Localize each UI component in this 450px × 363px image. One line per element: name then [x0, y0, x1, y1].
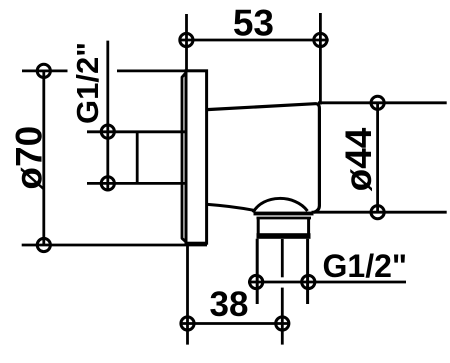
spout collar bottom band: [257, 233, 311, 239]
dimension G1/2 inlet: vertical dimension line: [106, 41, 109, 190]
svg-text:G1/2": G1/2": [323, 248, 408, 284]
dimension phi44: bottom extension line: [312, 211, 447, 214]
outlet pipe left edge: [256, 239, 259, 304]
dimension 38: dimension line: [183, 322, 288, 325]
dimension phi44: top extension line: [318, 101, 447, 104]
dot: G1/2 outlet left endpoint: [250, 275, 263, 288]
dimension 53: right extension line: [319, 13, 322, 105]
dimension phi70: vertical dimension line: [42, 71, 45, 245]
outlet pipe right edge: [306, 239, 309, 304]
flange front cover plate: [182, 73, 186, 242]
inlet pipe: bottom edge: [87, 182, 186, 185]
inlet pipe: top edge: [87, 130, 186, 133]
dot: G1/2 outlet right endpoint: [302, 275, 315, 288]
spout rim bar: [254, 212, 314, 216]
spout under-rim line: [257, 217, 312, 220]
dimension phi70: top extension line (left of text): [22, 70, 68, 73]
dimension 38: left extension line: [186, 244, 189, 345]
spout collar right edge: [307, 218, 310, 234]
dot: 38 left endpoint: [181, 317, 194, 330]
dot: 38 right endpoint: [276, 317, 289, 330]
spout dome cap: [253, 198, 308, 212]
svg-text:53: 53: [233, 2, 274, 43]
body top outline (cone to rim): [207, 104, 319, 213]
dimension phi70: bottom extension line: [22, 244, 207, 247]
dot: phi70 bottom endpoint: [37, 238, 50, 251]
dimension 38: right extension line upper segment: [281, 239, 284, 277]
dimension 38: right extension line lower segment: [281, 288, 284, 345]
dot: phi44 top endpoint: [371, 96, 384, 109]
dimension phi70: top extension line (right of text): [117, 70, 186, 73]
svg-text:ø70: ø70: [9, 126, 50, 190]
inlet pipe: thread step line: [136, 132, 139, 184]
dot: phi70 top endpoint: [37, 64, 50, 77]
flange body (side view): [186, 71, 207, 243]
dimension G1/2 outlet: dimension line: [248, 281, 406, 284]
svg-text:38: 38: [210, 285, 249, 324]
dot: G1/2 inlet top endpoint: [101, 125, 114, 138]
svg-text:ø44: ø44: [338, 127, 379, 191]
dimension 53: left extension line: [185, 14, 188, 71]
dimension phi44: vertical dimension line: [376, 103, 379, 212]
svg-text:G1/2": G1/2": [70, 42, 105, 124]
dot: 53 left endpoint: [180, 33, 193, 46]
dimension 53: dimension line: [179, 39, 328, 42]
dot: G1/2 inlet bottom endpoint: [101, 177, 114, 190]
dot: phi44 bottom endpoint: [371, 206, 384, 219]
dot: 53 right endpoint: [314, 33, 327, 46]
spout collar left edge: [257, 218, 260, 234]
body bottom outline curve: [208, 204, 255, 210]
